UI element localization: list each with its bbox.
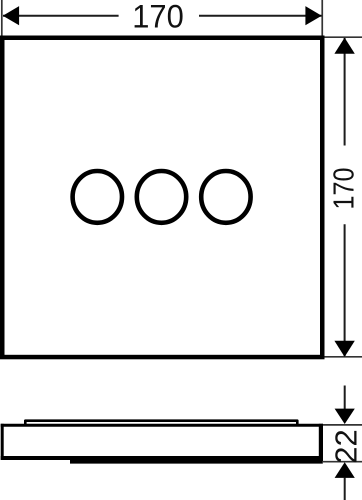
bottom witness line top <box>323 424 362 426</box>
right witness line top <box>325 36 362 38</box>
top arrow left <box>3 6 19 25</box>
right dimension line upper segment <box>344 38 346 146</box>
bottom arrow down <box>335 409 355 424</box>
side view bottom thick edge <box>70 459 323 464</box>
button circle left <box>73 171 122 223</box>
right arrow down <box>334 341 354 357</box>
svg-text:170: 170 <box>327 167 360 209</box>
side view top surface line <box>25 421 297 425</box>
top witness line right <box>321 0 323 36</box>
side view body bottom edge <box>1 456 323 460</box>
side view body right edge <box>319 424 323 461</box>
bottom witness line bottom <box>323 461 362 463</box>
svg-text:170: 170 <box>132 0 184 35</box>
top witness line left <box>1 0 3 36</box>
side view body top edge <box>1 424 323 427</box>
top dimension line left segment <box>3 15 119 17</box>
svg-text:22: 22 <box>328 429 362 463</box>
bottom arrow up <box>335 462 355 478</box>
right arrow up <box>334 38 354 54</box>
bottom dimension leader below <box>344 478 346 500</box>
right witness line bottom <box>325 356 362 358</box>
button circle right <box>201 171 250 223</box>
top dimension line right segment <box>199 15 322 17</box>
top arrow right <box>305 6 321 25</box>
side view body left edge <box>1 424 4 460</box>
right dimension line lower segment <box>344 224 346 356</box>
bottom dimension leader above <box>344 386 346 411</box>
button circle middle <box>137 171 186 223</box>
plan view square plate <box>2 38 322 357</box>
